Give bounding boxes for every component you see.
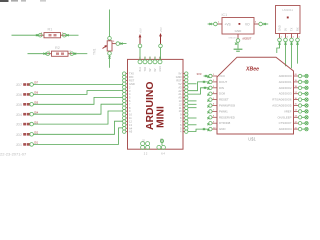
wire SV1 pin2 [284,42,286,67]
svg-text:RXI: RXI [129,75,134,79]
svg-text:AD2/DIO2: AD2/DIO2 [279,86,292,90]
svg-text:+5V: +5V [138,28,142,33]
connector JD7 [16,82,39,87]
svg-text:RST: RST [176,79,182,83]
Molex part number [0,152,27,157]
svg-text:+5V: +5V [159,27,163,32]
svg-text:A4: A4 [129,126,133,130]
XBee module U$1 [217,57,294,141]
svg-text:JD7: JD7 [16,83,22,87]
svg-text:ON/SLEEP: ON/SLEEP [278,115,292,119]
svg-text:GND: GND [129,82,135,86]
svg-text:PWM1: PWM1 [219,109,228,113]
svg-text:MINI: MINI [156,106,167,128]
svg-text:TX0: TX0 [144,66,147,71]
svg-text:AD3/DIO3: AD3/DIO3 [279,92,292,96]
svg-text:DO8: DO8 [219,92,225,96]
svg-text:JD4: JD4 [16,113,22,117]
svg-text:XBee: XBee [245,67,259,73]
wire JD5 to Arduino [33,97,122,104]
connector SV1 [276,6,301,42]
Arduino left pins [123,72,135,134]
svg-text:JD3: JD3 [16,123,22,127]
connector JD2 [16,132,39,137]
svg-text:GND: GND [235,29,243,33]
svg-text:3V3: 3V3 [197,72,202,76]
net label 3V3 [197,72,209,77]
wire JD4 to Arduino [33,104,122,114]
wire SV1 pin1 [277,42,281,54]
svg-text:AD1/DIO1: AD1/DIO1 [279,80,292,84]
svg-text:RX: RX [296,27,300,31]
connector JD6 [16,92,39,97]
svg-text:AD4/DIO4: AD4/DIO4 [279,127,292,131]
svg-text:DTR/DI8: DTR/DI8 [219,121,231,125]
svg-text:M350T: M350T [243,37,252,41]
svg-text:GND: GND [159,66,162,72]
svg-text:9V: 9V [178,72,181,76]
connector JD3 [16,121,39,126]
voltage regulator IC1 [208,13,269,42]
svg-text:RESET: RESET [219,98,229,102]
connector JD1 [16,142,39,147]
XBee right stub wires [302,74,308,131]
svg-text:5V: 5V [284,28,288,31]
svg-text:JD5: JD5 [16,103,22,107]
svg-text:TM1: TM1 [93,48,97,55]
Arduino top pins [138,57,162,72]
svg-text:BLK: BLK [139,67,142,72]
Arduino bottom pins A4-A7 [141,139,166,156]
svg-text:ARDUINO: ARDUINO [145,82,156,131]
wire JD6 to Arduino [33,91,122,95]
svg-text:JD1: JD1 [16,143,22,147]
wire JD7 to Arduino [33,84,122,86]
svg-text:R2: R2 [55,46,60,50]
svg-text:9V: 9V [154,68,157,71]
wire JD3 to Arduino [33,111,122,124]
svg-text:ASC/AD5/DIO5: ASC/AD5/DIO5 [272,104,292,108]
supply symbol +5V (left) [138,28,142,48]
supply symbol +5V (right) [159,27,163,48]
svg-text:U$1: U$1 [248,136,256,141]
wire from trimmer bottom [108,55,110,68]
svg-text:IC1: IC1 [222,13,228,17]
browser chrome remnant top-left [0,0,46,2]
svg-text:TX: TX [290,27,294,31]
svg-text:VCC: VCC [219,74,225,78]
wire supply to Arduino pin [160,48,162,61]
svg-text:AD0/DIO0: AD0/DIO0 [279,74,292,78]
svg-text:GND: GND [278,25,282,31]
svg-text:PWM0/RSSI: PWM0/RSSI [219,104,235,108]
wire supply to Arduino pin [139,48,141,61]
svg-text:5V: 5V [149,68,152,71]
svg-text:CTS/DIO7: CTS/DIO7 [279,121,292,125]
svg-text:GND: GND [219,127,225,131]
svg-text:LM1011: LM1011 [282,8,293,12]
XBee right pins [272,74,302,131]
XBee left pins [207,74,235,131]
svg-text:RESERVED: RESERVED [219,115,235,119]
wire regulator GND down [235,42,238,48]
svg-text:+VS: +VS [225,23,231,27]
Arduino right dangling wires [188,84,197,125]
svg-text:5V: 5V [178,82,181,86]
svg-text:R1: R1 [48,28,53,32]
svg-text:A3: A3 [178,85,182,89]
svg-text:RTS/AD6/DIO6: RTS/AD6/DIO6 [272,98,292,102]
resistor R1 [12,28,79,38]
wire SV1 pin3 [290,42,292,69]
wire Arduino RX to XBee DIN [188,87,209,94]
svg-text:A0: A0 [178,96,182,100]
resistor R2 [28,46,88,56]
svg-text:A5: A5 [129,130,133,134]
svg-text:DOUT: DOUT [219,80,227,84]
wire to trimmer top [109,10,111,38]
svg-text:JD6: JD6 [16,93,22,97]
Arduino right pins [176,72,188,134]
wire JD1 to Arduino [33,128,122,144]
svg-text:DIN: DIN [219,86,224,90]
svg-text:22-23-2071-07: 22-23-2071-07 [0,152,27,157]
svg-text:GND: GND [176,75,182,79]
svg-text:A1: A1 [178,92,182,96]
wire JD2 to Arduino [33,121,122,134]
wire Arduino GND to XBee GND [188,128,209,132]
wire SV1 pin4 [296,42,298,64]
svg-text:6 4: 6 4 [161,152,165,156]
svg-text:GND@3: GND@3 [228,37,237,39]
ground symbol [234,49,243,51]
svg-text:RST: RST [129,79,135,83]
svg-text:VREF: VREF [284,109,292,113]
trimmer TM1 [93,37,127,56]
connector JD4 [16,111,39,116]
Arduino Mini U1 [128,59,184,149]
wire Arduino TX to XBee DOUT [188,81,209,91]
svg-text:2 2: 2 2 [144,152,148,156]
connector JD5 [16,102,39,107]
svg-text:VO: VO [245,23,250,27]
svg-text:A2: A2 [178,89,182,93]
svg-text:TX0: TX0 [129,72,134,76]
svg-text:JD2: JD2 [16,133,22,137]
